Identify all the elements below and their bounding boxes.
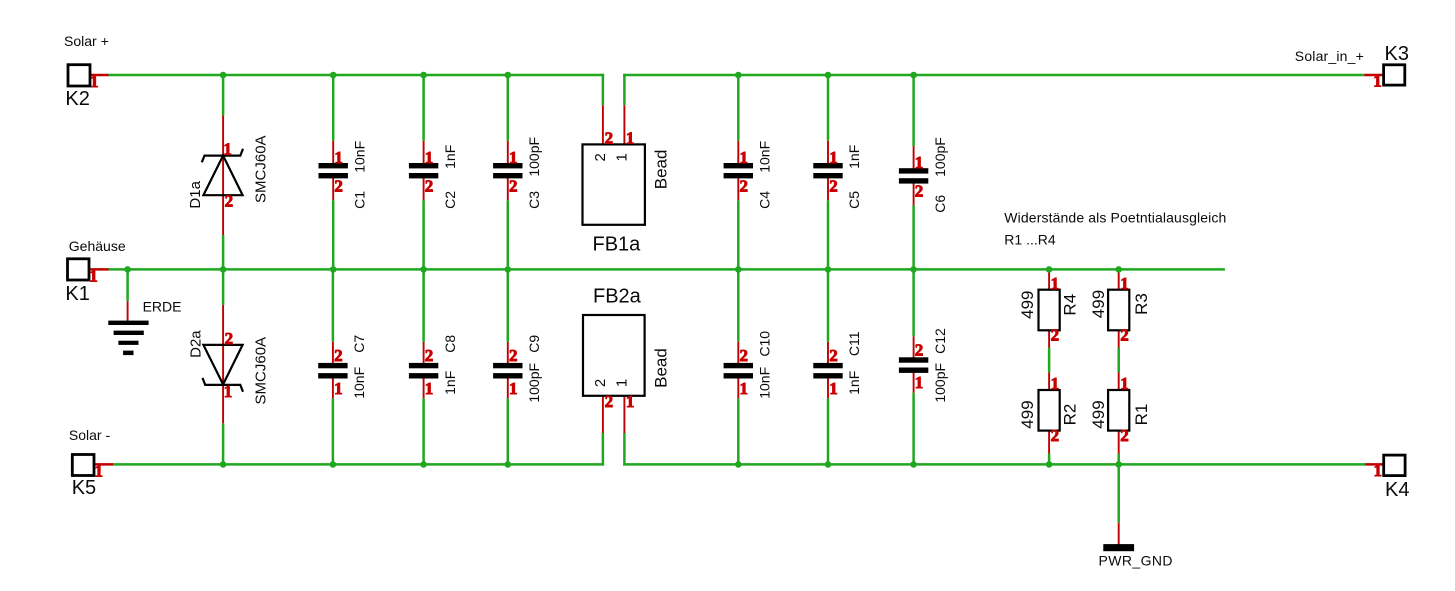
svg-text:1: 1 — [425, 148, 434, 167]
svg-text:2: 2 — [915, 341, 924, 360]
svg-text:1nF: 1nF — [442, 145, 458, 169]
wire C7 column — [332, 269, 335, 464]
net label Solar_in_+ — [1295, 48, 1364, 64]
svg-text:1: 1 — [1120, 274, 1129, 293]
svg-text:499: 499 — [1089, 400, 1108, 428]
svg-text:R4: R4 — [1060, 294, 1079, 316]
wire C2 column — [422, 75, 425, 269]
svg-text:2: 2 — [225, 191, 234, 210]
svg-text:1: 1 — [1120, 374, 1129, 393]
capacitor C1 10nF — [319, 141, 368, 209]
svg-text:2: 2 — [592, 379, 609, 387]
svg-text:1: 1 — [613, 379, 630, 387]
wire C12 column — [912, 269, 915, 464]
svg-text:FB2a: FB2a — [593, 286, 642, 308]
connector K1 (Gehaeuse) — [65, 259, 108, 305]
svg-text:PWR_GND: PWR_GND — [1099, 552, 1173, 568]
svg-text:499: 499 — [1089, 290, 1108, 318]
svg-text:1nF: 1nF — [442, 371, 458, 395]
junction bottom rail x=828.0 — [825, 461, 832, 468]
net label Gehaeuse — [69, 238, 126, 254]
svg-text:Bead: Bead — [651, 348, 670, 388]
svg-text:K2: K2 — [65, 88, 89, 110]
junction top rail x=423.6 — [420, 72, 427, 79]
svg-text:1: 1 — [224, 382, 233, 401]
ferrite bead FB2a — [583, 286, 670, 412]
wire resistor column x=1118.7 — [1118, 269, 1120, 464]
wire C10 column — [737, 269, 740, 464]
svg-text:2: 2 — [1051, 426, 1060, 445]
svg-text:2: 2 — [1120, 426, 1129, 445]
junction middle rail x=507.8 — [505, 266, 512, 273]
wire C11 column — [827, 269, 830, 464]
ground ERDE — [108, 298, 181, 355]
wire C3 column — [507, 75, 510, 269]
svg-text:1: 1 — [1373, 71, 1382, 90]
junction bottom rail x=738.3 — [735, 461, 742, 468]
junction middle rail x=738.3 — [735, 266, 742, 273]
junction middle rail x=1049.1 — [1046, 266, 1053, 273]
svg-text:1: 1 — [613, 153, 630, 161]
wire bottom rail right segment — [623, 463, 1365, 466]
svg-text:K5: K5 — [72, 477, 96, 499]
svg-text:1nF: 1nF — [846, 371, 862, 395]
svg-text:R1: R1 — [1132, 404, 1151, 426]
svg-text:C8: C8 — [442, 335, 458, 353]
junction middle rail x=223.1 — [220, 266, 227, 273]
wire FB1a pin 1 drop — [623, 74, 626, 145]
svg-text:1: 1 — [626, 129, 635, 148]
junction bottom rail x=332.9 — [330, 461, 337, 468]
junction middle rail x=127.6 — [124, 266, 131, 273]
capacitor C3 100pF — [493, 137, 542, 209]
wire resistor column x=1049.1 — [1048, 269, 1050, 464]
svg-text:K1: K1 — [65, 283, 89, 305]
junction top rail x=333.2 — [330, 72, 337, 79]
junction bottom rail x=223.1 — [220, 461, 227, 468]
svg-text:D2a: D2a — [187, 330, 204, 358]
svg-text:1: 1 — [425, 379, 434, 398]
junction top rail x=223.1 — [220, 72, 227, 79]
svg-text:C5: C5 — [846, 191, 862, 209]
svg-text:1: 1 — [740, 379, 749, 398]
junction middle rail x=423.6 — [420, 266, 427, 273]
svg-text:2: 2 — [829, 176, 838, 195]
svg-text:C2: C2 — [442, 191, 458, 209]
svg-text:C11: C11 — [846, 331, 862, 356]
junction bottom rail x=423.6 — [420, 461, 427, 468]
svg-text:SMCJ60A: SMCJ60A — [253, 135, 270, 203]
note text Widerstaende — [1004, 210, 1226, 248]
svg-text:C4: C4 — [757, 191, 773, 209]
connector K2 (Solar +) — [65, 65, 108, 110]
svg-text:Solar -: Solar - — [69, 427, 111, 443]
diode D2a SMCJ60A (TVS) — [187, 329, 269, 405]
wire C8 column — [422, 269, 425, 464]
capacitor C9 100pF — [493, 335, 542, 403]
wire PWR_GND drop — [1117, 464, 1120, 545]
svg-text:SMCJ60A: SMCJ60A — [253, 337, 270, 405]
wire top rail right segment (Solar_in_+) — [623, 74, 1364, 77]
svg-text:499: 499 — [1018, 291, 1037, 319]
svg-text:2: 2 — [225, 329, 234, 348]
junction top rail x=828.0 — [825, 72, 832, 79]
resistor R2 499 — [1018, 374, 1080, 445]
svg-text:1: 1 — [915, 153, 924, 172]
capacitor C10 10nF — [724, 331, 773, 399]
svg-text:10nF: 10nF — [351, 367, 367, 399]
capacitor C12 100pF — [899, 328, 948, 403]
capacitor C2 1nF — [409, 145, 458, 209]
svg-text:499: 499 — [1018, 400, 1037, 428]
svg-text:2: 2 — [829, 346, 838, 365]
svg-text:ERDE: ERDE — [143, 298, 182, 314]
svg-text:R2: R2 — [1060, 404, 1079, 426]
svg-text:1: 1 — [90, 72, 99, 91]
diode D1a SMCJ60A (TVS) — [187, 135, 269, 210]
junction bottom rail x=1118.7 — [1115, 461, 1122, 468]
resistor R3 499 — [1089, 274, 1151, 345]
capacitor C8 1nF — [409, 335, 458, 398]
wire FB1a pin 2 drop — [602, 74, 605, 145]
resistor R1 499 — [1089, 374, 1151, 445]
capacitor C6 100pF — [899, 137, 948, 213]
svg-text:1: 1 — [1374, 461, 1383, 480]
net label Solar - — [69, 427, 111, 443]
svg-text:10nF: 10nF — [757, 367, 773, 399]
wire D1a column — [222, 75, 225, 269]
connector K4 — [1365, 455, 1409, 501]
wire ERDE drop — [126, 269, 129, 321]
junction top rail x=507.8 — [505, 72, 512, 79]
svg-text:1: 1 — [334, 148, 343, 167]
junction bottom rail x=1049.1 — [1046, 461, 1053, 468]
svg-text:C12: C12 — [932, 328, 948, 354]
svg-text:10nF: 10nF — [351, 141, 367, 173]
svg-text:K3: K3 — [1385, 43, 1409, 65]
svg-text:2: 2 — [915, 182, 924, 201]
wire D2a column — [222, 269, 225, 464]
svg-text:100pF: 100pF — [932, 137, 948, 177]
wire bottom rail left segment (Solar -) — [112, 463, 604, 466]
svg-text:1: 1 — [740, 148, 749, 167]
svg-text:Solar_in_+: Solar_in_+ — [1295, 48, 1364, 64]
wire C4 column — [737, 75, 740, 269]
svg-text:R1 ...R4: R1 ...R4 — [1004, 231, 1056, 247]
capacitor C7 10nF — [318, 335, 367, 399]
ferrite bead FB1a — [583, 129, 671, 256]
svg-text:1: 1 — [626, 392, 635, 411]
svg-text:2: 2 — [605, 392, 614, 411]
svg-text:Bead: Bead — [651, 150, 670, 190]
svg-text:100pF: 100pF — [526, 363, 542, 403]
svg-text:1nF: 1nF — [846, 145, 862, 169]
wire C6 column — [912, 75, 915, 269]
connector K3 (Solar_in_+) — [1364, 43, 1409, 90]
svg-text:2: 2 — [425, 176, 434, 195]
svg-text:1: 1 — [1051, 274, 1060, 293]
svg-text:C9: C9 — [526, 335, 542, 353]
svg-text:C3: C3 — [526, 191, 542, 209]
svg-text:2: 2 — [592, 153, 609, 161]
svg-text:1: 1 — [89, 266, 98, 285]
svg-text:1: 1 — [334, 379, 343, 398]
svg-text:100pF: 100pF — [526, 137, 542, 177]
svg-text:1: 1 — [223, 140, 232, 159]
wire C1 column — [332, 75, 335, 269]
junction top rail x=913.6 — [910, 72, 917, 79]
ground PWR_GND — [1099, 544, 1173, 568]
svg-text:2: 2 — [334, 346, 343, 365]
svg-text:FB1a: FB1a — [593, 234, 642, 256]
svg-text:2: 2 — [1051, 325, 1060, 344]
wire FB2a pin 2 rise — [602, 396, 605, 466]
svg-text:10nF: 10nF — [757, 141, 773, 173]
junction top rail x=738.3 — [735, 72, 742, 79]
svg-text:R3: R3 — [1132, 293, 1151, 315]
junction bottom rail x=507.8 — [505, 461, 512, 468]
capacitor C4 10nF — [724, 141, 773, 209]
svg-text:2: 2 — [509, 346, 518, 365]
wire C9 column — [507, 269, 510, 464]
svg-text:Widerstände als Poetntialausgl: Widerstände als Poetntialausgleich — [1004, 210, 1226, 226]
capacitor C11 1nF — [813, 331, 862, 398]
svg-text:100pF: 100pF — [932, 363, 948, 403]
junction middle rail x=333.2 — [330, 266, 337, 273]
junction middle rail x=828.0 — [825, 266, 832, 273]
svg-text:1: 1 — [509, 148, 518, 167]
svg-text:1: 1 — [1051, 374, 1060, 393]
junction middle rail x=913.6 — [910, 266, 917, 273]
junction middle rail x=1118.7 — [1115, 266, 1122, 273]
svg-text:C6: C6 — [932, 195, 948, 213]
svg-text:C7: C7 — [351, 335, 367, 353]
svg-text:1: 1 — [829, 379, 838, 398]
svg-text:2: 2 — [740, 346, 749, 365]
svg-text:2: 2 — [425, 346, 434, 365]
capacitor C5 1nF — [813, 145, 862, 209]
svg-text:K4: K4 — [1385, 479, 1409, 501]
svg-text:2: 2 — [334, 176, 343, 195]
wire top rail left segment (Solar +) — [108, 74, 604, 77]
junction bottom rail x=913.6 — [910, 461, 917, 468]
svg-text:1: 1 — [509, 379, 518, 398]
svg-text:2: 2 — [509, 176, 518, 195]
svg-text:D1a: D1a — [187, 180, 204, 208]
net label Solar + — [64, 33, 109, 49]
resistor R4 499 — [1018, 274, 1080, 345]
svg-text:Solar +: Solar + — [64, 33, 109, 49]
svg-text:Gehäuse: Gehäuse — [69, 238, 126, 254]
svg-text:1: 1 — [915, 373, 924, 392]
svg-text:C10: C10 — [757, 331, 773, 357]
svg-text:2: 2 — [1120, 325, 1129, 344]
wire middle rail (Gehaeuse net) — [108, 268, 1225, 271]
svg-text:2: 2 — [740, 176, 749, 195]
wire C5 column — [827, 75, 830, 269]
svg-text:1: 1 — [829, 148, 838, 167]
svg-text:C1: C1 — [351, 191, 367, 209]
svg-text:2: 2 — [605, 129, 614, 148]
connector K5 (Solar -) — [72, 455, 113, 500]
wire FB2a pin 1 rise — [623, 396, 626, 466]
